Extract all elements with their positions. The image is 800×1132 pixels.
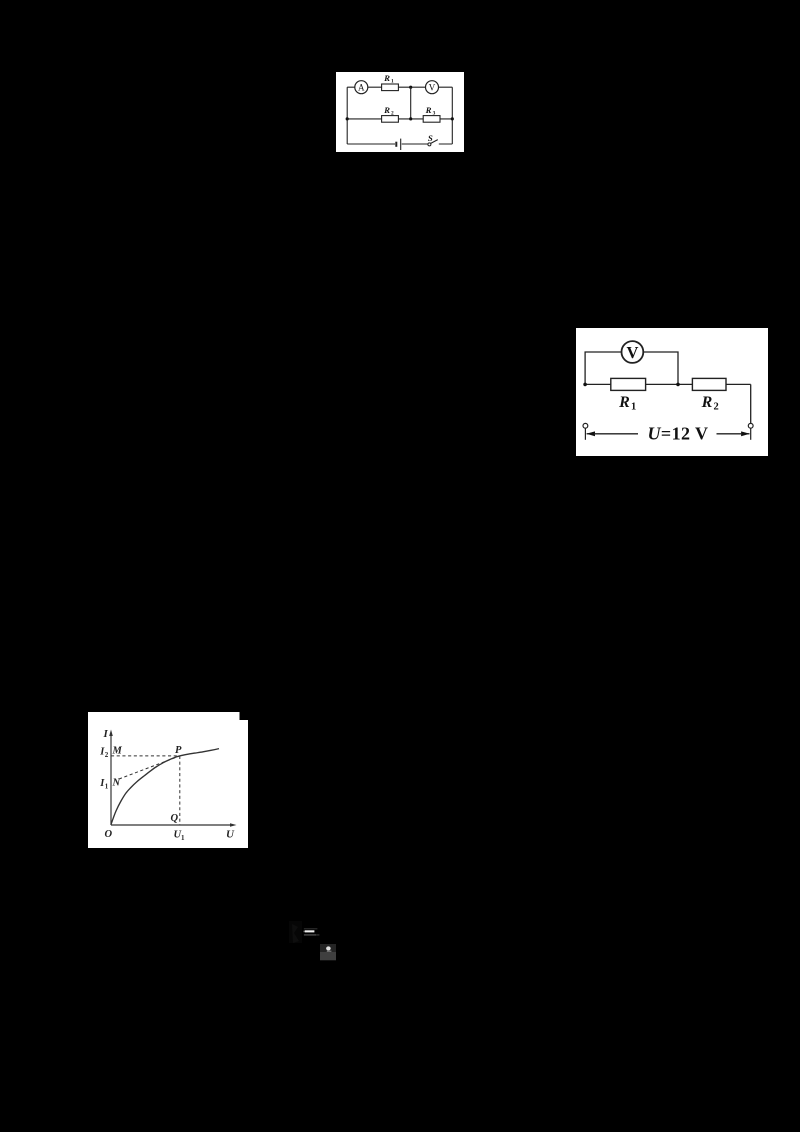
wire right vertical xyxy=(750,384,752,423)
fraction upper box xyxy=(320,944,336,952)
wire main row xyxy=(585,383,751,385)
svg-text:U: U xyxy=(226,829,235,841)
svg-text:R: R xyxy=(425,105,432,115)
dashed line I2-M to P xyxy=(111,755,180,757)
node top (junction of R1, V branch, middle branch) xyxy=(409,86,412,89)
resistor R1 xyxy=(611,378,646,390)
node main-left xyxy=(583,383,587,387)
svg-text:V: V xyxy=(429,82,436,92)
faint glyph R2 xyxy=(289,921,302,943)
voltmeter V xyxy=(622,341,644,363)
equals sign bright stroke xyxy=(305,930,315,932)
node middle-center xyxy=(409,117,412,120)
resistor R2 xyxy=(382,116,399,123)
wire top row xyxy=(347,86,452,88)
svg-text:R: R xyxy=(383,73,390,83)
wire middle vertical (top node to middle node) xyxy=(410,87,412,119)
node main-center xyxy=(676,383,680,387)
svg-text:2: 2 xyxy=(391,111,394,117)
svg-text:Q: Q xyxy=(171,813,179,824)
svg-text:O: O xyxy=(105,829,113,840)
resistor R3 xyxy=(423,116,440,123)
svg-text:A: A xyxy=(358,82,365,92)
node middle-left xyxy=(346,117,349,120)
dimension tick left xyxy=(584,428,586,439)
wire V branch right xyxy=(643,352,678,384)
svg-text:R: R xyxy=(383,105,390,115)
svg-text:R: R xyxy=(618,394,630,411)
svg-text:V: V xyxy=(626,343,638,362)
dimension arrow left xyxy=(587,433,594,435)
svg-text:R: R xyxy=(701,394,713,411)
ammeter A1 xyxy=(355,81,368,94)
resistor R2 xyxy=(692,378,726,390)
wire V branch left xyxy=(585,352,621,384)
curve I(U) xyxy=(111,749,219,825)
wire left vertical xyxy=(346,87,348,144)
terminal right (open circle) xyxy=(748,423,753,428)
svg-text:P: P xyxy=(175,745,182,756)
underline stroke (gray) xyxy=(304,934,316,936)
svg-text:I: I xyxy=(103,728,109,740)
wire middle row xyxy=(347,118,452,120)
battery BT1 short plate xyxy=(395,142,397,147)
svg-text:1: 1 xyxy=(391,79,394,85)
svg-text:S: S xyxy=(428,133,433,143)
fraction lower box xyxy=(320,952,336,960)
terminal left (open circle) xyxy=(583,423,588,428)
svg-text:N: N xyxy=(112,778,121,789)
node middle-right xyxy=(451,117,454,120)
svg-text:U=12 V: U=12 V xyxy=(648,423,709,443)
bright dash xyxy=(327,951,332,952)
dashed secant N to P xyxy=(119,756,180,779)
dimension arrow right xyxy=(743,433,750,435)
battery BT1 long plate xyxy=(400,139,402,150)
wire bottom row xyxy=(347,143,452,145)
voltmeter V1 xyxy=(426,81,439,94)
svg-text:1: 1 xyxy=(181,834,185,842)
axis I (vertical) xyxy=(110,734,112,826)
axis U (horizontal) xyxy=(111,824,233,826)
bright dot in fraction xyxy=(326,946,331,950)
dashed line P to U1 xyxy=(179,756,181,825)
svg-text:1: 1 xyxy=(105,783,109,791)
svg-text:2: 2 xyxy=(105,751,109,759)
switch S xyxy=(428,143,431,146)
dimension tick right xyxy=(750,428,752,439)
svg-text:3: 3 xyxy=(433,111,436,117)
svg-text:M: M xyxy=(112,746,123,757)
svg-text:1: 1 xyxy=(631,402,636,413)
svg-text:2: 2 xyxy=(714,402,719,413)
wire right vertical xyxy=(451,87,453,144)
corner notch (black) xyxy=(240,712,249,720)
resistor R1 xyxy=(382,84,399,91)
equals sign top stroke (dark) xyxy=(304,928,318,929)
